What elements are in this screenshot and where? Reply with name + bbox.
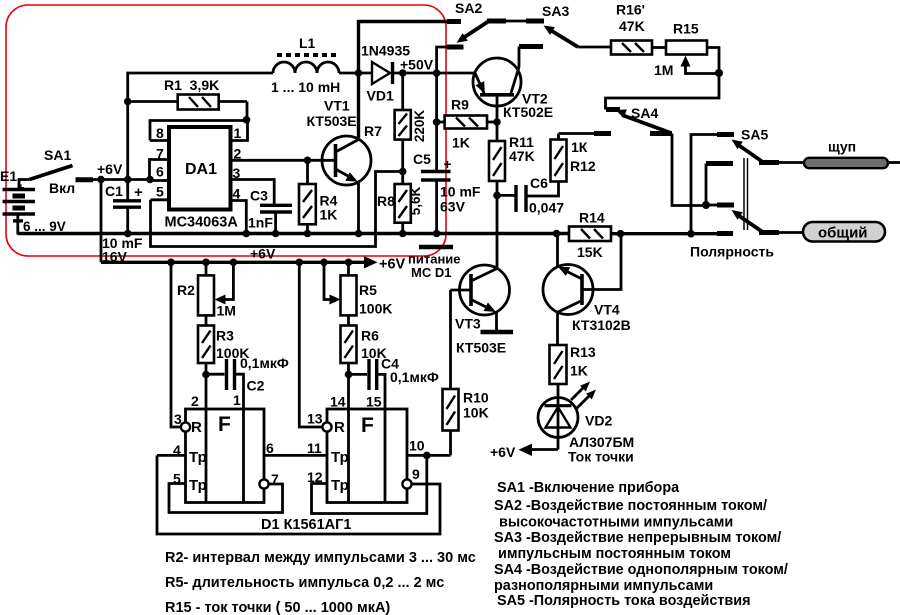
wire left riser to top frame [128,73,273,180]
pin 6 output [264,440,327,456]
node junction rail pin13 riser [296,259,304,267]
node junction R9 left [433,118,441,126]
svg-text:SA2: SA2 [455,0,482,16]
node junction pin1 frame [243,116,251,124]
switch SA4 [559,105,707,206]
node junction L1/VD1/VT1 [355,69,363,77]
svg-text:SA5: SA5 [741,127,768,143]
svg-text:15: 15 [366,394,382,410]
svg-text:R: R [191,419,202,436]
switch SA3 [519,3,611,47]
svg-text:1M: 1M [217,303,236,319]
svg-text:10 mF: 10 mF [440,184,481,200]
svg-text:SA2 -Воздействие постоянным то: SA2 -Воздействие постоянным током/ [494,498,767,514]
node junction SA1/C1 branch [97,176,105,184]
resistor R12 [528,139,596,196]
node junction rail R2 wiper [230,259,238,267]
svg-text:9: 9 [412,466,420,482]
node junction rail pin3 riser [167,259,175,267]
wire +6V down to lower rail [100,180,103,263]
svg-text:+: + [444,157,452,172]
resistor R7 [364,73,427,184]
svg-text:Тр: Тр [189,449,207,466]
svg-text:VD2: VD2 [585,413,612,429]
svg-text:C5: C5 [413,151,431,167]
potentiometer R15 [654,21,719,79]
svg-text:MC34063A: MC34063A [165,215,239,231]
LED light arrows [571,382,596,409]
svg-text:10: 10 [409,438,425,454]
svg-text:R15 - ток точки ( 50 ... 1000: R15 - ток точки ( 50 ... 1000 мкА) [165,600,390,615]
resistor R16' [611,2,666,55]
svg-text:Тр: Тр [189,477,207,494]
svg-text:SA1 -Включение прибора: SA1 -Включение прибора [497,480,680,496]
wire VT3 collector riser [496,195,499,268]
capacitor C6 [497,175,564,216]
resistor R10 [443,290,489,455]
node junction R4 bottom [304,230,312,238]
LED VD2 AL307BM [531,398,634,465]
legend switch functions [494,480,788,609]
svg-text:SA3: SA3 [542,3,569,19]
battery E1 [0,168,66,234]
pin 13 R input [307,411,332,432]
SA5 mechanical link [744,158,748,230]
wire pin 3 riser from rail [171,262,181,427]
pin 3 R input [174,411,190,432]
wire battery plus to SA1 [19,180,29,190]
svg-text:SA3 -Воздействие непрерывным т: SA3 -Воздействие непрерывным током/ [494,530,781,546]
svg-text:13: 13 [307,411,323,427]
svg-text:SA5 -Полярность тока воздейств: SA5 -Полярность тока воздействия [497,593,750,609]
svg-text:VT3: VT3 [455,316,481,332]
svg-text:C1: C1 [105,183,123,199]
resistor R13 [550,344,596,398]
svg-text:1К: 1К [571,139,588,155]
svg-text:импульсным постоянным током: импульсным постоянным током [498,546,731,562]
svg-text:R8: R8 [377,193,395,209]
svg-text:6 ... 9V: 6 ... 9V [23,219,66,234]
wire pin 5 feedback line [151,172,402,247]
label pitanie MC D1 [408,252,461,281]
node junction DA1 pin 6 [146,176,154,184]
svg-text:Вкл: Вкл [49,180,75,196]
capacitor C3 [248,188,292,234]
svg-text:R16': R16' [616,2,645,18]
svg-text:0,1мкФ: 0,1мкФ [390,369,439,385]
transistor Q4 : VT4 KT3102V [543,234,631,346]
svg-text:R: R [334,419,345,436]
wire pin 2 riser [205,375,208,410]
diode VD1 1N4935 [361,43,475,104]
node junction VT1 emitter [355,230,363,238]
node junction R1 left [124,98,132,106]
svg-text:6: 6 [156,164,164,180]
svg-text:SA1: SA1 [44,147,71,163]
svg-text:МС D1: МС D1 [411,265,451,280]
wire pin 2 to VT1 base [231,159,336,162]
resistor R14 [569,210,611,261]
resistor R1 [128,77,247,110]
svg-text:C3: C3 [250,188,268,204]
wire R1 right down to pin1 frame [246,102,249,121]
node junction C3 bottom [272,230,280,238]
switch SA1 [29,147,93,196]
wire pin5 to pin7 loop [169,484,283,513]
svg-text:63V: 63V [440,199,466,215]
svg-text:Полярность: Полярность [690,244,774,260]
svg-text:1K: 1K [570,363,588,379]
inductor L1 [271,35,372,95]
svg-text:разнополярными импульсами: разнополярными импульсами [494,578,713,594]
svg-text:5: 5 [156,184,164,200]
svg-text:+6V: +6V [379,257,406,273]
svg-text:1K: 1K [320,207,338,223]
node junction R15 wiper [715,69,723,77]
svg-text:R12: R12 [570,158,596,174]
resistor R9 [437,97,497,151]
node junction C1 bottom [124,230,132,238]
wire pin 14 riser [347,374,350,409]
svg-text:R5: R5 [359,282,377,298]
capacitor C4 [349,356,439,410]
ground bar below C5 [419,245,453,250]
svg-text:КТ503Е: КТ503Е [456,340,506,356]
svg-text:6: 6 [266,440,274,456]
svg-text:R3: R3 [216,328,234,344]
svg-text:F: F [361,414,374,437]
svg-text:11: 11 [307,440,322,456]
pin 7 inverted output [259,471,279,489]
capacitor C5 [413,73,481,234]
IC D1.2 monostable block [327,409,407,503]
capacitor C2 [206,355,289,409]
node junction C5 bottom [433,230,441,238]
switch SA5 pole 1 [691,127,779,234]
svg-text:100K: 100K [359,301,392,317]
svg-text:1: 1 [234,125,242,141]
wire pin9 to pin4 loop [157,455,440,534]
svg-text:2: 2 [191,393,199,409]
svg-text:220K: 220K [412,110,427,143]
svg-text:КТ502Е: КТ502Е [503,104,553,120]
svg-text:R6: R6 [361,328,379,344]
wire R15 to SA4 [606,73,720,110]
svg-text:DA1: DA1 [185,161,217,178]
common electrode (obschiy) [779,222,885,242]
wire pin 4 to 0V rail [231,201,247,234]
transistor Q1 : VT1 KT503E [307,73,372,234]
node junction R11 bottom / C6 [493,192,501,200]
svg-text:1 ... 10 mH: 1 ... 10 mH [271,79,340,95]
resistor R3 [198,315,249,374]
wire pin 3 to C3 [231,180,275,205]
node junction +50V / C5 riser [433,69,441,77]
potentiometer R5 [324,262,392,316]
svg-text:8: 8 [156,125,164,141]
svg-text:R15: R15 [673,21,699,37]
resistor R8 [377,184,423,234]
switch SA5 pole 2 [706,205,779,234]
svg-text:47K: 47K [509,148,535,164]
svg-text:15K: 15K [577,244,603,260]
pin 10 output [407,438,451,456]
svg-text:Ток точки: Ток точки [568,449,634,465]
capacitor C1 [102,180,143,265]
node junction R9 right / VT2 base [493,118,501,126]
red highlight box [6,5,446,256]
wire battery minus terminal [13,214,23,235]
pin 6 box [150,160,170,181]
svg-text:D1 К1561АГ1: D1 К1561АГ1 [261,517,351,533]
arrow +6V at LED [519,444,533,456]
node junction R7/R8 feedback [399,168,407,176]
svg-text:+6V: +6V [97,161,123,177]
svg-text:14: 14 [330,394,346,410]
arrow +6V rail end [364,256,378,268]
node junction R8 bottom [399,230,407,238]
pin 9 inverted output [402,466,420,489]
svg-text:R9: R9 [451,97,469,113]
node junction R4 top [304,157,312,165]
node junction SA5 riser [687,230,695,238]
svg-text:R13: R13 [570,344,596,360]
node junction VT4 emitter / R14 left [553,230,561,238]
svg-text:Е1: Е1 [0,168,17,184]
resistor R11 [489,134,535,195]
svg-text:C2: C2 [247,378,265,394]
wire 0V rail right segment [611,232,717,235]
svg-text:щуп: щуп [828,139,856,155]
svg-text:+: + [134,184,143,201]
svg-text:КТ503Е: КТ503Е [307,113,357,129]
svg-text:R5- длительность импульса 0,2: R5- длительность импульса 0,2 ... 2 мс [165,575,444,591]
node junction SA5 poles [702,201,710,209]
node junction pin 4 [243,230,251,238]
svg-text:VD1: VD1 [367,88,394,104]
transistor Q2 : VT2 KT502E [473,47,553,142]
svg-text:10K: 10K [463,405,489,421]
svg-text:VT4: VT4 [594,302,620,318]
svg-text:R2- интервал между импульсами: R2- интервал между импульсами 3 ... 30 м… [165,550,476,566]
resistor R4 [299,160,338,233]
svg-text:VT1: VT1 [324,98,350,114]
node junction rail R5 top [345,259,353,267]
wire pin4 input [157,454,186,457]
switch SA2 [437,0,526,73]
svg-text:Тр: Тр [331,477,349,494]
probe tip (shchup) [779,139,900,169]
node junction rail R5 wiper [320,259,328,267]
node junction VT4 base / R14 right [617,230,625,238]
svg-text:КТ3102В: КТ3102В [572,317,631,333]
svg-text:R14: R14 [579,210,605,226]
svg-text:5,6K: 5,6K [408,186,423,215]
svg-text:R10: R10 [463,390,489,406]
svg-text:1K: 1K [452,135,470,151]
svg-text:1: 1 [233,392,241,408]
IC D1.1 monostable block [186,409,265,503]
svg-text:общий: общий [818,225,868,242]
svg-text:+6V: +6V [490,444,516,460]
svg-text:0,047: 0,047 [529,200,564,216]
node junction R7 top [399,69,407,77]
svg-text:F: F [218,413,231,436]
op-amp U1 : IC DA1 MC34063A body [165,127,239,231]
svg-text:1nF: 1nF [248,215,273,231]
svg-text:R1 3,9K: R1 3,9K [164,77,219,93]
node junction C1 top [124,176,132,184]
wire +6V node line [93,178,150,181]
potentiometer R2 [177,262,236,318]
svg-text:0,1мкФ: 0,1мкФ [240,355,289,371]
svg-text:SA4 -Воздействие однополярным: SA4 -Воздействие однополярным током/ [494,562,788,578]
svg-text:высокочастотными импульсами: высокочастотными импульсами [499,515,733,531]
svg-text:R7: R7 [364,123,382,139]
pin 8 box [150,121,248,142]
wire top frame to SA2 [359,22,462,74]
svg-text:Тр: Тр [331,449,349,466]
svg-text:C6: C6 [530,175,548,191]
node junction R3/C2/pin2 [202,371,210,379]
wire pin 13 riser from rail [299,262,322,427]
wire 0V rail left segment [18,232,569,235]
transistor Q3 : VT3 KT503E [451,265,510,356]
resistor R6 [341,315,387,374]
pin 5 stub [151,184,170,200]
wire pin12 to pin10 loop [312,455,427,513]
emitter bar VT3 [481,330,514,335]
node junction R6/C4/pin14 [345,371,353,379]
svg-text:47K: 47K [619,18,645,34]
svg-text:R2: R2 [177,282,195,298]
legend pot functions [165,550,476,615]
svg-text:1M: 1M [654,62,673,78]
node junction rail R2 top [202,259,210,267]
wire +6V distribution rail [101,261,364,264]
node junction pin10/pin12 [423,452,431,460]
svg-text:+6V: +6V [250,246,276,262]
svg-text:L1: L1 [299,35,316,51]
